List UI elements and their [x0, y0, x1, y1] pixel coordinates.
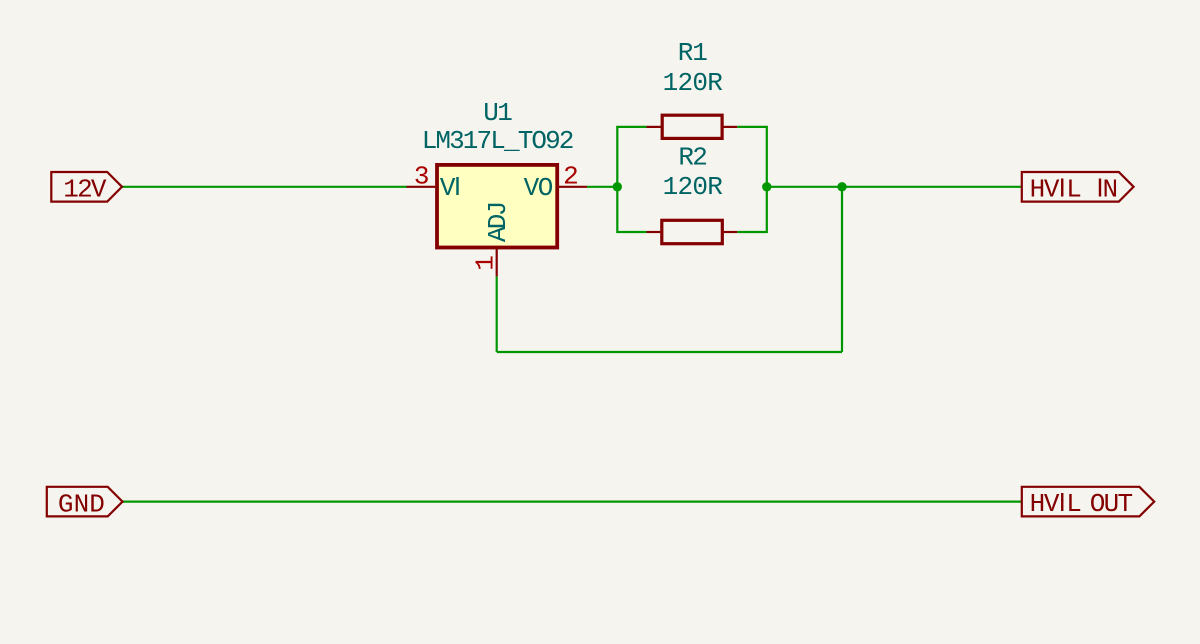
wire feedback vertical from junction C: [841, 187, 843, 352]
global label GND: [47, 487, 123, 520]
svg-text:ADJ: ADJ: [483, 201, 513, 242]
svg-text:OUT: OUT: [1090, 489, 1133, 519]
wire junction B to HVIL IN label: [767, 186, 1022, 188]
svg-text:120R: 120R: [663, 172, 723, 202]
U1 pin 1 ADJ: [470, 201, 513, 277]
global label HVIL IN: [1022, 172, 1134, 204]
svg-text:GND: GND: [58, 489, 105, 519]
global label HVIL OUT: [1022, 487, 1154, 519]
wire feedback horizontal to ADJ: [497, 351, 842, 353]
svg-text:HVIL: HVIL: [1030, 172, 1082, 204]
resistor R1 body: [662, 115, 722, 138]
svg-text:VI: VI: [440, 171, 461, 203]
svg-text:1: 1: [470, 255, 500, 271]
wire 12V label to U1 pin 3: [122, 186, 407, 188]
U1 pin 3 VI: [407, 161, 462, 203]
wire ADJ pin down segment: [496, 276, 498, 352]
svg-text:LM317L_TO92: LM317L_TO92: [422, 126, 575, 156]
resistor R1 pin 1 stub: [647, 126, 662, 128]
resistor R2 body: [662, 220, 723, 243]
svg-text:120R: 120R: [663, 68, 723, 98]
U1 pin 2 VO: [524, 161, 587, 203]
wire U1 pin 2 to junction A: [587, 186, 617, 188]
resistor R2 pin 2 stub: [723, 231, 737, 233]
svg-text:R2: R2: [678, 143, 708, 173]
wire right parallel rail vertical: [737, 127, 767, 232]
svg-text:2: 2: [563, 161, 579, 191]
junction A: [613, 182, 622, 191]
svg-text:IN: IN: [1096, 172, 1118, 204]
wire left parallel rail vertical: [617, 127, 646, 232]
svg-text:12V: 12V: [63, 174, 107, 204]
regulator U1 body: [437, 165, 557, 248]
global label 12V: [51, 172, 122, 204]
svg-text:HVIL: HVIL: [1030, 487, 1082, 519]
junction C: [837, 182, 846, 191]
resistor R2 pin 1 stub: [647, 231, 662, 233]
wire GND label to HVIL OUT label: [123, 501, 1022, 503]
svg-text:VO: VO: [524, 173, 554, 203]
junction B: [762, 182, 771, 191]
svg-text:U1: U1: [483, 98, 513, 128]
svg-text:R1: R1: [678, 38, 708, 68]
resistor R1 pin 2 stub: [723, 126, 737, 128]
svg-text:3: 3: [414, 161, 430, 191]
